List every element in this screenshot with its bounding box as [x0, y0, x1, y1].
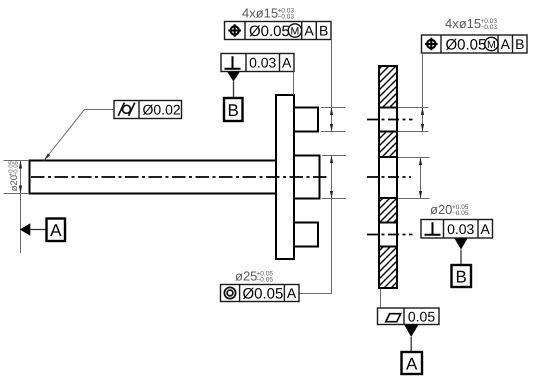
perpendicularity symbol (left): [225, 56, 241, 68]
datum B triangle (left): [227, 72, 240, 82]
bore dim line: [420, 158, 422, 199]
datum B box (right): [452, 265, 472, 287]
svg-text:4xø15: 4xø15: [445, 16, 481, 31]
hole dim extension top (left): [321, 107, 346, 109]
svg-text:ø20: ø20: [430, 202, 452, 217]
perpendicularity FCF (left) frame: [221, 54, 294, 72]
svg-text:A: A: [481, 221, 491, 237]
cylindricity leader: [44, 110, 114, 161]
bore dim arrow down: [419, 191, 422, 199]
section hatch band 1: [380, 67, 396, 108]
datum A stem (bottom right): [410, 337, 412, 352]
svg-text:−0.03: −0.03: [278, 13, 295, 20]
datum A box (bottom right): [402, 352, 423, 374]
section bottom hole lower edge: [379, 246, 397, 248]
datum B stem (left): [233, 82, 235, 99]
svg-text:Ø0.05: Ø0.05: [243, 285, 284, 302]
hole dim arrow up (right): [421, 108, 424, 116]
concentricity symbol: [224, 287, 235, 298]
svg-text:ø20: ø20: [9, 175, 20, 191]
position symbol (right): [425, 38, 438, 51]
svg-text:ø25: ø25: [235, 269, 257, 284]
svg-text:A: A: [287, 285, 297, 301]
perp FCF leader to flange corner: [293, 72, 295, 96]
datum B stem (right): [460, 250, 462, 266]
svg-text:Ø0.02: Ø0.02: [143, 102, 181, 118]
svg-text:B: B: [228, 101, 239, 120]
shaft dim arrow down: [19, 186, 22, 194]
datum B box (left): [224, 98, 243, 121]
svg-text:B: B: [456, 267, 467, 286]
svg-text:A: A: [50, 221, 62, 240]
svg-text:A: A: [501, 36, 511, 52]
hub dia25 extension bottom: [322, 198, 346, 200]
bore dia20 extension top: [398, 157, 430, 159]
perpendicularity symbol (right): [425, 222, 441, 234]
MMC modifier (left): [288, 24, 301, 37]
concentricity FCF frame: [221, 285, 300, 302]
svg-text:Ø0.05: Ø0.05: [446, 36, 487, 53]
datum A connector: [30, 229, 47, 231]
middle hub boss (front view): [294, 156, 320, 199]
MMC modifier (right): [485, 37, 498, 50]
svg-text:M: M: [487, 39, 496, 51]
section hatch band 4: [380, 247, 396, 288]
svg-text:Ø0.05: Ø0.05: [249, 23, 290, 40]
shaft dia extension line bottom: [4, 193, 30, 195]
flatness FCF frame: [378, 308, 440, 325]
datum A triangle (bottom right): [404, 325, 419, 338]
svg-text:B: B: [515, 36, 524, 52]
svg-text:4xø15: 4xø15: [242, 5, 278, 20]
section main centerline: [367, 176, 411, 178]
cylindricity symbol: [118, 103, 135, 116]
datum A box (left): [47, 219, 66, 242]
position FCF leader / hole dim (right): [422, 53, 424, 132]
svg-text:−0.05: −0.05: [257, 277, 274, 284]
svg-text:0.03: 0.03: [249, 55, 276, 71]
shaft dim arrow up: [19, 161, 22, 169]
svg-text:A: A: [406, 354, 418, 373]
shaft body (front view): [30, 161, 277, 194]
hole dim arrow down (right): [421, 124, 424, 132]
hole dim arrow down (left): [330, 124, 333, 132]
flange plate (front view): [276, 95, 294, 259]
shaft dia dimension line / datum stem: [20, 161, 22, 254]
bottom hole boss (front view): [294, 223, 318, 247]
datum A triangle (left, on shaft dimension): [20, 223, 31, 235]
svg-text:−0.05: −0.05: [12, 160, 19, 176]
position FCF leader / hole dim line (left): [331, 40, 333, 132]
section top hole upper edge: [379, 107, 397, 109]
section bottom hole upper edge: [379, 222, 397, 224]
section top hole lower edge: [379, 131, 397, 133]
svg-text:A: A: [282, 55, 292, 71]
cylindricity leader arrow: [44, 153, 50, 160]
flatness symbol: [386, 314, 401, 322]
section center bore lower edge: [379, 197, 397, 199]
svg-text:M: M: [291, 26, 300, 38]
svg-text:0.05: 0.05: [408, 308, 435, 324]
position symbol (left): [228, 24, 241, 37]
perpendicularity FCF (right) frame: [421, 220, 493, 239]
top hole boss (front view): [294, 108, 318, 132]
section top hole centerline: [367, 119, 413, 121]
shaft dia extension line top: [4, 160, 30, 162]
hub dim line + runout leader: [299, 156, 332, 294]
hub dia25 extension top: [322, 155, 346, 157]
shaft dia label (vertical): [7, 160, 20, 191]
section hatch band 3: [380, 198, 396, 223]
svg-text:−0.03: −0.03: [481, 24, 498, 31]
svg-text:A: A: [304, 23, 314, 39]
datum B triangle (right): [455, 239, 468, 250]
flatness FCF leader: [380, 289, 382, 308]
section hatch band 2: [380, 132, 396, 158]
position FCF (right) frame: [422, 35, 528, 53]
hub dim arrow down: [330, 191, 333, 199]
svg-text:0.03: 0.03: [447, 221, 474, 237]
hub dim arrow up: [330, 156, 333, 164]
bore dia20 extension bottom: [398, 198, 430, 200]
svg-text:B: B: [319, 23, 328, 39]
hole dim arrow up (left): [330, 108, 333, 116]
shaft centerline: [31, 176, 327, 178]
hole dim extension bottom (left): [321, 131, 346, 133]
hole dim extension bottom (right): [398, 131, 429, 133]
position FCF (left) frame: [225, 22, 332, 40]
bore dim arrow up: [419, 158, 422, 166]
section center bore upper edge: [379, 156, 397, 158]
cylindricity FCF frame: [114, 101, 182, 119]
hole dim extension top (right): [398, 107, 429, 109]
section bottom hole centerline: [367, 234, 413, 236]
flange section view outline: [379, 66, 397, 288]
svg-text:−0.05: −0.05: [452, 210, 469, 217]
